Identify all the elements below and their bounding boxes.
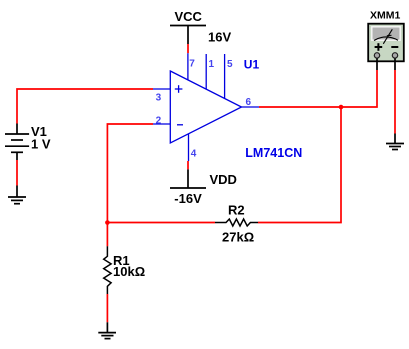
wire V1 plus to op-amp pin 3: [17, 89, 153, 124]
svg-text:27kΩ: 27kΩ: [222, 229, 254, 244]
svg-text:5: 5: [227, 59, 233, 70]
svg-text:6: 6: [246, 97, 252, 108]
op-amp U1 triangle: [170, 71, 241, 143]
resistor R1: [104, 246, 111, 294]
VDD rail symbol: [170, 169, 206, 188]
svg-text:2: 2: [156, 116, 162, 127]
pin 5 stub: [224, 54, 226, 98]
pin 1 stub: [205, 54, 207, 89]
multimeter scale tick: [387, 34, 392, 37]
junction node A: [105, 220, 110, 225]
wire VDD to pin 4: [187, 161, 189, 169]
pin 4 stub: [188, 134, 190, 161]
svg-text:1: 1: [209, 59, 215, 70]
multimeter gauge arc: [374, 37, 398, 41]
junction node B: [339, 105, 344, 110]
wire R1 bottom to ground: [106, 294, 108, 322]
ground under V1: [8, 186, 26, 204]
svg-text:1 V: 1 V: [31, 137, 51, 152]
multimeter plus terminal: [374, 53, 379, 58]
svg-text:U1: U1: [244, 58, 260, 72]
op-amp minus sign: [177, 124, 183, 126]
svg-text:VCC: VCC: [175, 9, 203, 24]
svg-text:7: 7: [189, 59, 195, 70]
svg-text:LM741CN: LM741CN: [245, 146, 302, 160]
svg-text:XMM1: XMM1: [370, 10, 400, 22]
svg-text:-16V: -16V: [174, 191, 202, 206]
wire op-amp pin 6 output to multimeter plus: [259, 70, 377, 107]
wire multimeter minus to ground: [394, 70, 396, 134]
wire R2 right to node B: [258, 107, 341, 223]
svg-text:R2: R2: [228, 203, 245, 218]
op-amp plus sign: [175, 85, 183, 93]
VCC rail symbol: [170, 26, 206, 45]
wire op-amp pin 2 to node A: [107, 124, 153, 223]
svg-text:16V: 16V: [208, 29, 231, 44]
multimeter needle: [383, 29, 392, 44]
multimeter display: [372, 27, 400, 40]
multimeter minus mark: [391, 46, 398, 48]
wire node A to R1 top: [106, 223, 108, 247]
multimeter XMM1 body: [368, 24, 404, 62]
pin 7 stub: [187, 53, 189, 80]
svg-text:VDD: VDD: [210, 172, 237, 187]
multimeter minus terminal lead: [394, 58, 396, 70]
ground under R1: [98, 322, 116, 338]
multimeter plus terminal lead: [376, 58, 378, 70]
wire V1 minus to ground: [16, 160, 18, 186]
ground under multimeter: [386, 134, 404, 150]
pin 2 stub: [153, 123, 170, 125]
resistor R2: [215, 219, 258, 226]
pin 3 stub: [153, 88, 170, 90]
svg-text:3: 3: [156, 93, 162, 104]
svg-text:4: 4: [191, 149, 197, 160]
multimeter plus mark: [375, 43, 383, 51]
battery V1: [5, 124, 29, 161]
svg-text:10kΩ: 10kΩ: [113, 264, 145, 279]
pin 6 stub: [242, 106, 260, 108]
wire node A to R2 left: [107, 222, 215, 224]
wire VCC to pin 7: [187, 44, 189, 53]
multimeter minus terminal: [392, 53, 397, 58]
